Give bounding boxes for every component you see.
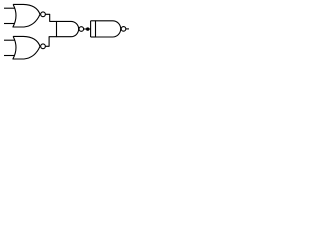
wire to U4 bottom input bbox=[91, 36, 96, 38]
wire U2 out to U3 bottom input bbox=[45, 37, 56, 47]
wire input stub B1 bbox=[4, 39, 15, 41]
NOR gate U2 body bbox=[13, 36, 40, 59]
NAND gate U4 output bubble bbox=[121, 27, 126, 32]
wire output stub bbox=[126, 28, 129, 30]
wire input stub A2 bbox=[4, 23, 14, 25]
NOR gate U1 output bubble bbox=[41, 12, 46, 17]
wire U3 out to junction bbox=[84, 28, 91, 30]
NOR gate U1 body bbox=[13, 4, 40, 27]
NAND gate U4 body bbox=[96, 21, 121, 37]
wire input stub B2 bbox=[4, 55, 14, 57]
wire U1 out to U3 top input bbox=[45, 14, 56, 21]
NOR gate U2 output bubble bbox=[41, 44, 46, 49]
wire input stub A1 bbox=[4, 7, 15, 9]
NAND gate U3 output bubble bbox=[79, 27, 84, 32]
junction dot bbox=[86, 27, 89, 30]
NAND gate U3 body bbox=[57, 21, 79, 36]
wire junction split vertical bbox=[90, 21, 92, 37]
wire to U4 top input bbox=[91, 20, 96, 22]
